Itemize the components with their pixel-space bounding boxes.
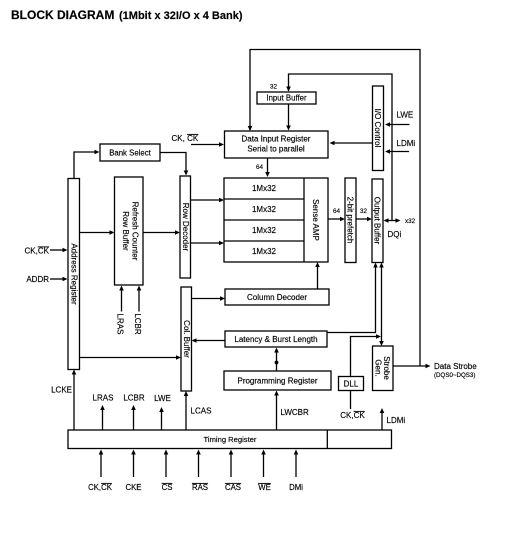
svg-text:LDMi: LDMi bbox=[387, 416, 406, 425]
svg-text:LWCBR: LWCBR bbox=[281, 408, 310, 417]
svg-text:RAS: RAS bbox=[192, 483, 208, 492]
svg-text:Programming Register: Programming Register bbox=[237, 377, 317, 386]
label WE(bar) bottom input to Timing Register bbox=[258, 450, 271, 493]
svg-text:Latency & Burst Length: Latency & Burst Length bbox=[234, 335, 317, 344]
svg-text:1Mx32: 1Mx32 bbox=[252, 184, 277, 193]
wire clock line Output Buffer / Strobe Gen. bbox=[379, 263, 384, 347]
svg-text:Timing Register: Timing Register bbox=[204, 435, 257, 444]
block Col. Buffer (vertical) bbox=[181, 287, 192, 391]
svg-text:2-bit prefetch: 2-bit prefetch bbox=[346, 197, 355, 244]
svg-text:Sense AMP: Sense AMP bbox=[311, 199, 320, 241]
svg-text:64: 64 bbox=[333, 208, 341, 215]
svg-text:Bank Select: Bank Select bbox=[109, 149, 151, 158]
block Output Buffer (vertical) bbox=[372, 179, 383, 263]
svg-text:32: 32 bbox=[360, 208, 368, 215]
wire DQ bidirectional x32 DQi bbox=[384, 218, 416, 239]
svg-text:I/O Control: I/O Control bbox=[373, 109, 382, 148]
block Data Input Register / Serial to parallel bbox=[225, 131, 329, 158]
svg-text:WE: WE bbox=[258, 483, 271, 492]
svg-text:LCAS: LCAS bbox=[191, 407, 212, 416]
svg-text:(DQS0~DQS3): (DQS0~DQS3) bbox=[434, 372, 475, 379]
block 2-bit prefetch (vertical) bbox=[345, 178, 356, 263]
svg-text:LDMi: LDMi bbox=[397, 139, 416, 148]
label LCAS wire Timing Register to Col. Buffer bbox=[184, 391, 212, 430]
svg-text:BLOCK DIAGRAM: BLOCK DIAGRAM bbox=[11, 8, 114, 22]
svg-text:1Mx32: 1Mx32 bbox=[252, 226, 277, 235]
svg-text:LRAS: LRAS bbox=[116, 314, 125, 335]
block Row Decoder (vertical) bbox=[180, 176, 191, 278]
block DLL bbox=[339, 377, 364, 391]
wire Column Decoder to Sense AMP bbox=[315, 262, 320, 289]
block I/O Control (vertical) bbox=[373, 86, 384, 171]
block Input Buffer bbox=[257, 92, 316, 104]
svg-text:CKE: CKE bbox=[125, 483, 141, 492]
svg-text:CK, CK: CK, CK bbox=[172, 134, 199, 143]
svg-text:CK,CK: CK,CK bbox=[88, 483, 113, 492]
svg-text:(1Mbit x 32I/O x 4 Bank): (1Mbit x 32I/O x 4 Bank) bbox=[119, 10, 243, 22]
label CK,CK(bar) input to Address Register bbox=[25, 247, 68, 256]
label LRAS (vertical) wire into Refresh Counter bottom bbox=[116, 286, 125, 335]
svg-text:64: 64 bbox=[256, 164, 264, 171]
svg-text:Column Decoder: Column Decoder bbox=[247, 293, 307, 302]
svg-text:DQi: DQi bbox=[388, 230, 402, 239]
label LCKE wire Timing Register to Address Register bbox=[51, 370, 76, 431]
svg-text:x32: x32 bbox=[405, 218, 416, 225]
label LCBR stub arrow from Timing Register bbox=[123, 394, 145, 431]
svg-text:LCKE: LCKE bbox=[51, 386, 72, 395]
title: BLOCK DIAGRAM heading bbox=[11, 8, 243, 22]
svg-text:Data Input Register: Data Input Register bbox=[242, 135, 311, 144]
label ADDR input to Address Register bbox=[26, 275, 67, 284]
wire 2-bit prefetch to Output Buffer with 32 label bbox=[356, 208, 372, 221]
svg-text:LWE: LWE bbox=[154, 394, 171, 403]
block Column Decoder bbox=[225, 289, 329, 305]
wire Programming Register to Latency with junction dot bbox=[274, 348, 279, 372]
label LCBR (vertical) wire into Refresh Counter bottom bbox=[133, 286, 142, 335]
wire Latency &amp; Burst Length to Output Buffer bbox=[327, 263, 378, 333]
svg-text:1Mx32: 1Mx32 bbox=[252, 247, 277, 256]
label CK,CK(bar) below DLL with wire bbox=[340, 391, 365, 421]
svg-text:1Mx32: 1Mx32 bbox=[252, 205, 277, 214]
svg-text:LCBR: LCBR bbox=[123, 394, 145, 403]
svg-text:DMi: DMi bbox=[289, 483, 303, 492]
wire Bank Select to Row Decoder bbox=[160, 153, 188, 176]
block Bank Select bbox=[100, 144, 160, 161]
wire inner loop DQ to Input Buffer with 32 label bbox=[270, 74, 392, 221]
block Timing Register with right divider bbox=[68, 430, 392, 449]
block memory array 4 x 1Mx32 with Sense AMP bbox=[224, 178, 328, 262]
svg-text:LCBR: LCBR bbox=[133, 313, 142, 335]
svg-text:Row Decoder: Row Decoder bbox=[181, 203, 190, 252]
wire Latency &amp; Burst Length to Col. Buffer bbox=[192, 338, 226, 343]
label LRAS stub arrow from Timing Register bbox=[93, 394, 114, 431]
svg-text:LRAS: LRAS bbox=[93, 394, 114, 403]
label RAS(bar) bottom input to Timing Register bbox=[192, 450, 208, 493]
label LWE input to I/O Control bbox=[385, 111, 413, 127]
wire Input Buffer to Data Input Register bbox=[286, 104, 291, 131]
wire Address Register top to Bank Select bbox=[74, 150, 100, 179]
wire outer loop DQS to Data Input Register bbox=[248, 50, 420, 367]
wire Refresh Counter to Row Decoder bbox=[143, 230, 180, 235]
label CS(bar) bottom input to Timing Register bbox=[162, 450, 173, 493]
wire I/O Control to Data Input Register bbox=[330, 141, 373, 146]
block Programming Register bbox=[224, 371, 331, 390]
label DMi bottom input to Timing Register bbox=[289, 450, 303, 493]
label CK, CK(bar) with wire into Data Input Register bbox=[172, 134, 225, 147]
label CKE bottom input to Timing Register bbox=[125, 450, 141, 493]
wire Row Decoder to array row 4 bbox=[191, 241, 225, 246]
block Latency &amp; Burst Length bbox=[225, 331, 327, 347]
label CK,CK(bar) bottom input to Timing Register bbox=[88, 450, 113, 493]
block Refresh Counter / Row Buffer bbox=[115, 177, 144, 285]
svg-text:ADDR: ADDR bbox=[26, 275, 49, 284]
wire Address Register to Refresh Counter bbox=[80, 230, 115, 235]
wire DLL to clock node junction bbox=[351, 334, 382, 376]
svg-text:CAS: CAS bbox=[225, 483, 241, 492]
label LWE stub arrow from Timing Register bbox=[154, 394, 171, 430]
svg-text:32: 32 bbox=[270, 84, 278, 91]
wire Sense AMP to 2-bit prefetch with 64 label bbox=[328, 208, 345, 221]
block Address Register (vertical) bbox=[68, 179, 80, 370]
wire Col. Buffer to Column Decoder bbox=[192, 296, 226, 301]
svg-text:Input Buffer: Input Buffer bbox=[266, 94, 307, 103]
svg-text:Address Register: Address Register bbox=[69, 243, 78, 305]
label CAS(bar) bottom input to Timing Register bbox=[225, 450, 241, 493]
svg-text:DLL: DLL bbox=[344, 380, 359, 389]
label LDMi input to I/O Control bbox=[385, 139, 415, 154]
wire Data Input Register to array with 64 label bbox=[256, 158, 270, 177]
svg-text:CS: CS bbox=[162, 483, 173, 492]
wire Row Decoder to array row 2 bbox=[191, 198, 225, 203]
wire Address Register to Col. Buffer bbox=[80, 355, 182, 360]
svg-text:LWE: LWE bbox=[397, 111, 414, 120]
svg-text:CK,CK: CK,CK bbox=[25, 247, 50, 256]
label LWCBR wire Timing Register to Programming Register bbox=[274, 391, 309, 431]
svg-text:Serial to parallel: Serial to parallel bbox=[247, 145, 305, 154]
svg-text:Data Strobe: Data Strobe bbox=[434, 362, 477, 371]
svg-text:CK,CK: CK,CK bbox=[340, 411, 365, 420]
block Strobe Gen. (vertical) bbox=[373, 346, 394, 391]
wire Strobe Gen. to Data Strobe output bbox=[393, 362, 477, 379]
svg-text:Output Buffer: Output Buffer bbox=[373, 197, 382, 245]
label LDMi stub arrow from Timing Register bbox=[380, 408, 406, 430]
svg-text:Col. Buffer: Col. Buffer bbox=[182, 320, 191, 358]
